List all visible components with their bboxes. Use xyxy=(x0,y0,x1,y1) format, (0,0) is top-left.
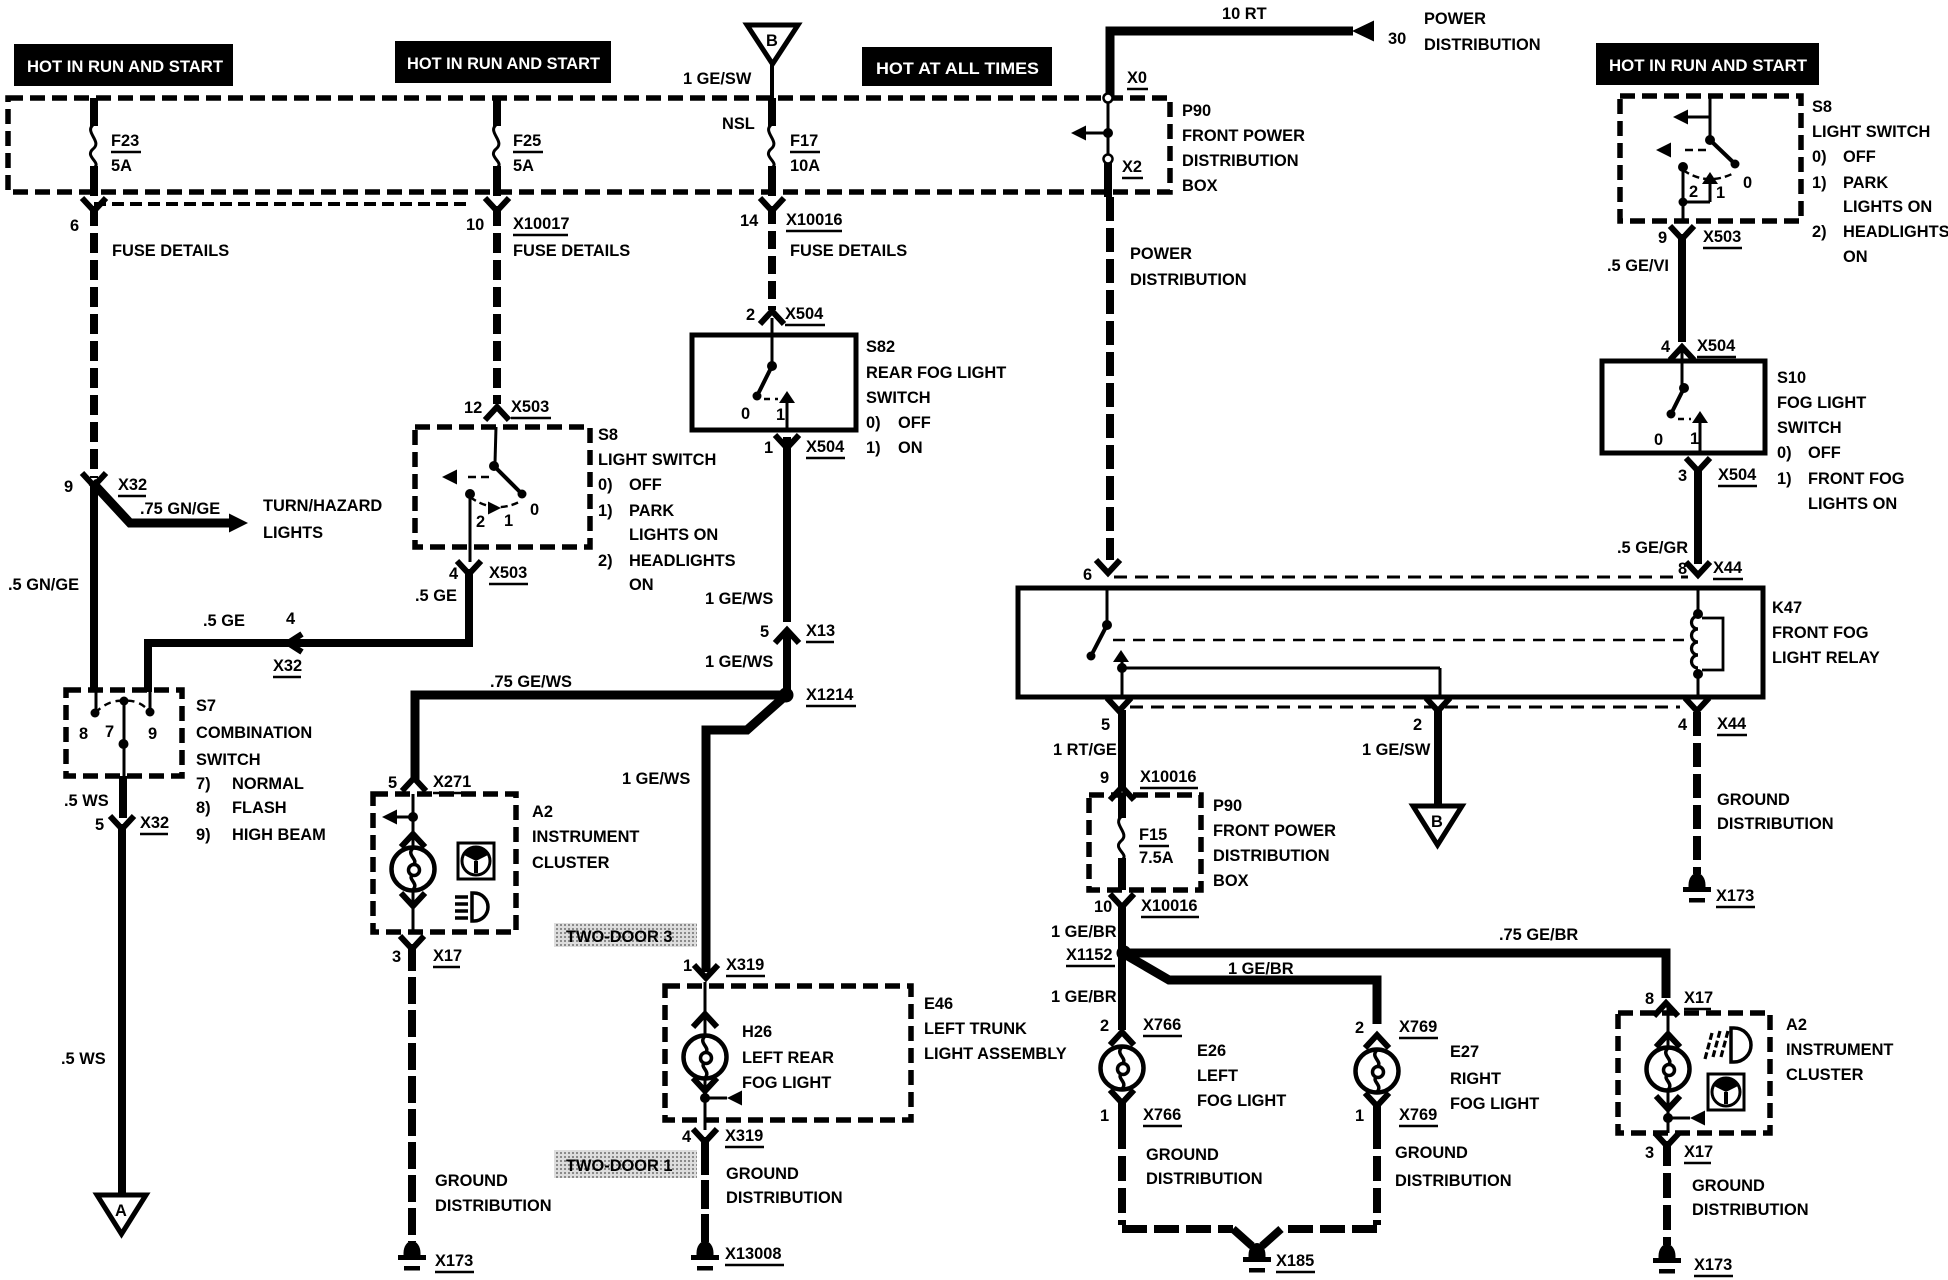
connector pin 4 X44 (K47 coil out) xyxy=(1678,698,1747,735)
svg-text:0): 0) xyxy=(1812,148,1827,166)
svg-text:X503: X503 xyxy=(489,564,527,582)
svg-text:X319: X319 xyxy=(725,1127,763,1145)
svg-text:X766: X766 xyxy=(1143,1106,1181,1124)
dashed control line to X44 (relay top) xyxy=(1114,576,1688,579)
svg-text:ON: ON xyxy=(898,439,923,457)
svg-text:LIGHTS: LIGHTS xyxy=(263,524,323,542)
svg-text:10: 10 xyxy=(1094,898,1112,916)
svg-text:5: 5 xyxy=(1101,716,1110,734)
wire 1 GE/WS to left rear fog light xyxy=(622,698,783,972)
label P90 FRONT POWER DISTRIBUTION BOX (lower) xyxy=(1213,797,1336,890)
svg-text:X504: X504 xyxy=(1718,466,1757,484)
connector pin 14 X10016 xyxy=(740,198,843,231)
svg-text:10A: 10A xyxy=(790,157,820,175)
svg-text:DISTRIBUTION: DISTRIBUTION xyxy=(1717,815,1834,833)
svg-text:0): 0) xyxy=(866,414,881,432)
svg-text:2): 2) xyxy=(598,552,613,570)
svg-text:7.5A: 7.5A xyxy=(1139,849,1174,867)
svg-text:1 GE/BR: 1 GE/BR xyxy=(1228,960,1294,978)
svg-text:E26: E26 xyxy=(1197,1042,1226,1060)
wire H26 to ground X13008 (dashed) xyxy=(701,1137,709,1242)
label GROUND DISTRIBUTION (far left) xyxy=(435,1172,552,1215)
svg-text:LEFT TRUNK: LEFT TRUNK xyxy=(924,1020,1027,1038)
connector pin 2 X504 xyxy=(746,305,825,325)
svg-text:7): 7) xyxy=(196,775,211,793)
svg-text:X32: X32 xyxy=(273,657,302,675)
svg-text:OFF: OFF xyxy=(898,414,931,432)
connector row dashed line below fuse box xyxy=(94,202,470,206)
svg-text:7: 7 xyxy=(105,723,114,741)
rear fog light switch S82 xyxy=(692,318,856,432)
svg-text:GROUND: GROUND xyxy=(726,1165,799,1183)
svg-text:1: 1 xyxy=(683,957,692,975)
connector B (top) xyxy=(747,25,798,99)
svg-text:9: 9 xyxy=(1100,769,1109,787)
svg-text:ON: ON xyxy=(629,576,654,594)
svg-text:LIGHT RELAY: LIGHT RELAY xyxy=(1772,649,1880,667)
svg-text:RIGHT: RIGHT xyxy=(1450,1070,1501,1088)
svg-text:3: 3 xyxy=(1678,467,1687,485)
label TWO-DOOR 1 (stippled) xyxy=(554,1150,697,1178)
header box HOT AT ALL TIMES xyxy=(862,47,1052,86)
svg-text:X10016: X10016 xyxy=(1140,768,1197,786)
svg-text:1 GE/BR: 1 GE/BR xyxy=(1051,988,1117,1006)
label S7 COMBINATION SWITCH xyxy=(196,697,326,844)
svg-text:1 RT/GE: 1 RT/GE xyxy=(1053,741,1117,759)
svg-text:5: 5 xyxy=(95,816,104,834)
steering wheel icon (right) xyxy=(1708,1074,1744,1110)
svg-text:FOG LIGHT: FOG LIGHT xyxy=(1777,394,1866,412)
svg-text:LEFT: LEFT xyxy=(1197,1067,1238,1085)
wire F17 to X504 (dashed) xyxy=(768,206,776,310)
headlight icon xyxy=(455,893,488,921)
svg-text:INSTRUMENT: INSTRUMENT xyxy=(1786,1041,1893,1059)
svg-text:HOT IN RUN AND START: HOT IN RUN AND START xyxy=(27,58,223,76)
svg-text:X0: X0 xyxy=(1127,69,1147,87)
svg-text:DISTRIBUTION: DISTRIBUTION xyxy=(1182,152,1299,170)
svg-text:FRONT FOG: FRONT FOG xyxy=(1808,470,1905,488)
wire E26 to ground X185 (dashed) xyxy=(1122,1124,1233,1229)
svg-text:HEADLIGHTS: HEADLIGHTS xyxy=(629,552,736,570)
connector pin 5 (K47) xyxy=(1101,698,1131,734)
svg-text:CLUSTER: CLUSTER xyxy=(1786,1066,1864,1084)
svg-text:4: 4 xyxy=(1661,338,1671,356)
svg-text:0): 0) xyxy=(598,476,613,494)
svg-text:X271: X271 xyxy=(433,773,471,791)
relay control dashed line (K47 internal) xyxy=(1113,639,1684,642)
indicator lamp (A2 left) xyxy=(392,848,435,933)
svg-text:SWITCH: SWITCH xyxy=(866,389,931,407)
svg-text:1: 1 xyxy=(1716,184,1725,202)
fuse F17 10A / NSL xyxy=(722,98,820,196)
svg-text:DISTRIBUTION: DISTRIBUTION xyxy=(1213,847,1330,865)
svg-text:X44: X44 xyxy=(1713,559,1743,577)
svg-text:6: 6 xyxy=(1083,566,1092,584)
wire .75 GE/BR to instrument cluster (right) xyxy=(1124,926,1666,998)
svg-text:6: 6 xyxy=(70,217,79,235)
svg-text:4: 4 xyxy=(449,565,459,583)
svg-text:X10017: X10017 xyxy=(513,215,570,233)
connector pin 2 X769 xyxy=(1355,1018,1438,1048)
svg-text:OFF: OFF xyxy=(1808,444,1841,462)
label S8 LIGHT SWITCH (right) xyxy=(1812,98,1948,266)
connector pin 8 X44 (relay coil in) xyxy=(1678,559,1743,579)
svg-text:HIGH BEAM: HIGH BEAM xyxy=(232,826,326,844)
svg-text:A: A xyxy=(115,1202,127,1220)
wire E27 to ground X185 (dashed) xyxy=(1281,1124,1377,1229)
wire F23 to X32 (dashed) xyxy=(90,206,98,478)
svg-text:FRONT POWER: FRONT POWER xyxy=(1213,822,1336,840)
svg-text:FUSE DETAILS: FUSE DETAILS xyxy=(513,242,630,260)
svg-text:X17: X17 xyxy=(433,947,462,965)
svg-text:DISTRIBUTION: DISTRIBUTION xyxy=(1146,1170,1263,1188)
steering wheel icon xyxy=(458,843,494,879)
svg-text:1 GE/SW: 1 GE/SW xyxy=(683,70,752,88)
svg-text:1 GE/WS: 1 GE/WS xyxy=(705,590,773,608)
wire F15 to X1152 (1 GE/BR) xyxy=(1051,904,1122,950)
svg-text:8: 8 xyxy=(1645,990,1654,1008)
svg-text:S8: S8 xyxy=(1812,98,1832,116)
svg-text:LIGHTS ON: LIGHTS ON xyxy=(629,526,718,544)
connector pin 3 X504 (S10 out) xyxy=(1678,458,1757,486)
svg-text:LIGHTS ON: LIGHTS ON xyxy=(1808,495,1897,513)
svg-text:X319: X319 xyxy=(726,956,764,974)
wire cluster right to ground X173 (dashed) xyxy=(1663,1141,1671,1245)
label GROUND DISTRIBUTION (E26) xyxy=(1146,1146,1263,1188)
left rear fog light H26 xyxy=(684,982,743,1130)
instrument cluster A2 (right) xyxy=(1618,1004,1770,1133)
connector pin 4 X319 (fog light output) xyxy=(682,1127,764,1147)
instrument cluster A2 (left) xyxy=(373,794,516,932)
svg-text:0: 0 xyxy=(1743,174,1752,192)
svg-text:X1152: X1152 xyxy=(1066,946,1113,964)
connector pin 6 (F23 output) xyxy=(70,198,106,235)
label A2 INSTRUMENT CLUSTER (left) xyxy=(532,803,639,872)
wire 10 RT battery feed xyxy=(1110,5,1406,98)
fuse F25 5A xyxy=(493,98,543,196)
connector pin 2 (K47) xyxy=(1413,698,1450,734)
svg-text:GROUND: GROUND xyxy=(1692,1177,1765,1195)
svg-text:2: 2 xyxy=(1100,1017,1109,1035)
svg-text:FLASH: FLASH xyxy=(232,799,287,817)
combination switch S7 xyxy=(66,690,182,776)
svg-text:2: 2 xyxy=(1413,716,1422,734)
svg-text:ON: ON xyxy=(1843,248,1868,266)
label TURN/HAZARD LIGHTS xyxy=(263,497,382,542)
svg-text:1 GE/BR: 1 GE/BR xyxy=(1051,923,1117,941)
svg-text:S8: S8 xyxy=(598,426,618,444)
svg-text:8: 8 xyxy=(79,725,88,743)
svg-text:SWITCH: SWITCH xyxy=(1777,419,1842,437)
svg-text:9: 9 xyxy=(64,478,73,496)
svg-text:1 GE/WS: 1 GE/WS xyxy=(705,653,773,671)
svg-text:POWER: POWER xyxy=(1424,10,1486,28)
connector pin 8 X17 (cluster right input) xyxy=(1645,989,1713,1016)
connector pin 4 X504 (S10 input) xyxy=(1661,337,1736,360)
connector B (middle) xyxy=(1413,806,1462,845)
svg-text:X32: X32 xyxy=(140,814,169,832)
svg-text:PARK: PARK xyxy=(629,502,674,520)
svg-text:DISTRIBUTION: DISTRIBUTION xyxy=(1130,271,1247,289)
connector pin 9 X10016 (F15 input) xyxy=(1100,768,1198,800)
svg-text:1: 1 xyxy=(1100,1107,1109,1125)
connector pin 1 X319 (fog light input) xyxy=(683,956,765,978)
svg-text:8: 8 xyxy=(1678,560,1687,578)
connector pin 12 X503 xyxy=(464,398,551,420)
svg-text:X185: X185 xyxy=(1276,1252,1314,1270)
header box HOT IN RUN AND START (right) xyxy=(1596,43,1819,85)
svg-text:LIGHTS ON: LIGHTS ON xyxy=(1843,198,1932,216)
svg-text:.75 GE/WS: .75 GE/WS xyxy=(490,673,572,691)
svg-text:P90: P90 xyxy=(1213,797,1242,815)
svg-text:BOX: BOX xyxy=(1182,177,1218,195)
svg-text:1): 1) xyxy=(598,502,613,520)
svg-text:X173: X173 xyxy=(1716,887,1754,905)
svg-text:X1214: X1214 xyxy=(806,686,854,704)
svg-text:PARK: PARK xyxy=(1843,174,1888,192)
connector pin 6 (relay feed) xyxy=(1083,560,1120,584)
svg-text:1 GE/WS: 1 GE/WS xyxy=(622,770,690,788)
svg-text:COMBINATION: COMBINATION xyxy=(196,724,312,742)
label E27 RIGHT FOG LIGHT xyxy=(1450,1043,1539,1113)
svg-text:X503: X503 xyxy=(511,398,549,416)
svg-text:INSTRUMENT: INSTRUMENT xyxy=(532,828,639,846)
connector pin 1 X504 (S82 output) xyxy=(764,435,845,458)
svg-text:FUSE DETAILS: FUSE DETAILS xyxy=(112,242,229,260)
svg-text:DISTRIBUTION: DISTRIBUTION xyxy=(1395,1172,1512,1190)
wire X44 to ground X173 (dashed) xyxy=(1693,712,1701,874)
node X1152 xyxy=(1066,946,1132,967)
svg-text:E27: E27 xyxy=(1450,1043,1479,1061)
fuse F15 7.5A xyxy=(1118,795,1173,890)
svg-text:.5 GE/VI: .5 GE/VI xyxy=(1607,257,1669,275)
label A2 INSTRUMENT CLUSTER (right) xyxy=(1786,1016,1893,1084)
connector pin 3 X17 (cluster right out) xyxy=(1645,1133,1713,1163)
connector pin 9 X503 (S8 right out) xyxy=(1658,226,1742,248)
connector pin 1 X769 xyxy=(1355,1093,1438,1126)
svg-text:E46: E46 xyxy=(924,995,953,1013)
svg-text:X503: X503 xyxy=(1703,228,1741,246)
svg-text:.5 GN/GE: .5 GN/GE xyxy=(8,576,79,594)
svg-text:0): 0) xyxy=(1777,444,1792,462)
svg-text:1): 1) xyxy=(1777,470,1792,488)
connector pin 10 X10017 xyxy=(466,198,570,235)
svg-text:10: 10 xyxy=(466,216,484,234)
svg-text:DISTRIBUTION: DISTRIBUTION xyxy=(1424,36,1541,54)
label S8 LIGHT SWITCH (middle) xyxy=(598,426,736,594)
svg-text:1: 1 xyxy=(1690,430,1699,448)
svg-text:A2: A2 xyxy=(1786,1016,1807,1034)
left trunk light assembly E46 xyxy=(665,986,911,1120)
svg-text:2: 2 xyxy=(746,306,755,324)
label GROUND DISTRIBUTION (A2 right) xyxy=(1692,1177,1809,1219)
svg-text:5: 5 xyxy=(388,774,397,792)
svg-text:CLUSTER: CLUSTER xyxy=(532,854,610,872)
wire to turn/hazard lights xyxy=(92,482,248,533)
svg-text:2: 2 xyxy=(1355,1019,1364,1037)
svg-text:1: 1 xyxy=(1355,1107,1364,1125)
light switch S8 (middle) xyxy=(415,427,590,547)
svg-text:2): 2) xyxy=(1812,223,1827,241)
ground X13008 xyxy=(691,1241,784,1271)
svg-text:H26: H26 xyxy=(742,1023,772,1041)
svg-text:4: 4 xyxy=(1678,716,1688,734)
left fog light E26 xyxy=(1101,1047,1144,1127)
wire F25 to X503 (dashed) xyxy=(493,206,501,404)
svg-text:.5 GE/GR: .5 GE/GR xyxy=(1617,539,1688,557)
connector pin 5 X13 xyxy=(760,622,835,643)
light switch S8 (right) xyxy=(1620,96,1801,221)
wire S8 mid to S7 pin 9 (.5 GE) xyxy=(148,569,469,692)
svg-text:LIGHT SWITCH: LIGHT SWITCH xyxy=(598,451,716,469)
svg-text:F15: F15 xyxy=(1139,826,1167,844)
svg-text:NSL: NSL xyxy=(722,115,755,133)
svg-text:HOT AT ALL TIMES: HOT AT ALL TIMES xyxy=(876,60,1039,78)
svg-text:9: 9 xyxy=(148,725,157,743)
svg-text:30: 30 xyxy=(1388,30,1406,48)
svg-text:X173: X173 xyxy=(1694,1256,1732,1274)
ground X173 (left) xyxy=(398,1241,474,1272)
svg-text:X504: X504 xyxy=(1697,337,1736,355)
svg-text:GROUND: GROUND xyxy=(1717,791,1790,809)
front fog indicator icon xyxy=(1705,1028,1751,1062)
node X1214 xyxy=(779,686,857,706)
node X2 on fuse box xyxy=(1104,155,1144,198)
wire .5 GE/VI to S10 xyxy=(1607,234,1682,342)
svg-text:X10016: X10016 xyxy=(1141,897,1198,915)
wire .75 GE/WS to instrument cluster xyxy=(415,673,786,780)
svg-text:5A: 5A xyxy=(513,157,534,175)
svg-text:9: 9 xyxy=(1658,229,1667,247)
svg-text:X504: X504 xyxy=(785,305,824,323)
svg-text:FOG LIGHT: FOG LIGHT xyxy=(1197,1092,1286,1110)
label GROUND DISTRIBUTION (E27) xyxy=(1395,1144,1512,1190)
relay coil (K47) xyxy=(1692,588,1724,697)
svg-text:FUSE DETAILS: FUSE DETAILS xyxy=(790,242,907,260)
svg-text:SWITCH: SWITCH xyxy=(196,751,261,769)
svg-text:TWO-DOOR 1: TWO-DOOR 1 xyxy=(566,1157,673,1175)
svg-text:.75 GE/BR: .75 GE/BR xyxy=(1499,926,1578,944)
fog light switch S10 xyxy=(1602,348,1765,453)
svg-text:BOX: BOX xyxy=(1213,872,1249,890)
svg-text:X504: X504 xyxy=(806,438,845,456)
label S82 REAR FOG LIGHT SWITCH xyxy=(866,338,1006,457)
connector pin 5 X32 (S7 output) xyxy=(95,776,169,834)
wire cluster to ground X173 (left, dashed) xyxy=(408,944,416,1242)
svg-text:B: B xyxy=(1431,813,1443,831)
svg-text:X17: X17 xyxy=(1684,989,1713,1007)
svg-text:HOT IN RUN AND START: HOT IN RUN AND START xyxy=(1609,57,1807,75)
wire 1 GE/BR down to left fog light xyxy=(1051,956,1122,1030)
svg-text:P90: P90 xyxy=(1182,102,1211,120)
fuse box P90 (lower, dashed) xyxy=(1089,795,1201,890)
label GROUND DISTRIBUTION (H26) xyxy=(726,1165,843,1207)
svg-text:HOT IN RUN AND START: HOT IN RUN AND START xyxy=(407,55,600,73)
svg-text:.75 GN/GE: .75 GN/GE xyxy=(140,500,220,518)
header box HOT IN RUN AND START (mid-left) xyxy=(395,41,611,83)
svg-text:F17: F17 xyxy=(790,132,818,150)
front fog light relay K47 xyxy=(1018,588,1763,697)
svg-text:0: 0 xyxy=(1654,431,1663,449)
svg-text:.5 WS: .5 WS xyxy=(61,1050,106,1068)
svg-text:1): 1) xyxy=(1812,174,1827,192)
wire .5 GE/GR to relay xyxy=(1617,468,1698,564)
dashed connector-row line below K47 xyxy=(1130,706,1680,709)
svg-text:4: 4 xyxy=(682,1128,692,1146)
svg-text:B: B xyxy=(766,32,778,50)
right fog light E27 xyxy=(1356,1050,1399,1127)
svg-text:5: 5 xyxy=(760,623,769,641)
svg-text:14: 14 xyxy=(740,212,759,230)
svg-text:FOG LIGHT: FOG LIGHT xyxy=(1450,1095,1539,1113)
svg-text:X44: X44 xyxy=(1717,715,1747,733)
label GROUND DISTRIBUTION (K47) xyxy=(1717,791,1834,833)
svg-text:OFF: OFF xyxy=(1843,148,1876,166)
svg-text:8): 8) xyxy=(196,799,211,817)
wire 1 GE/SW to connector B xyxy=(1362,710,1438,808)
header box HOT IN RUN AND START (left) xyxy=(14,44,233,86)
svg-text:.5 GE: .5 GE xyxy=(415,587,457,605)
svg-text:S82: S82 xyxy=(866,338,895,356)
label K47 FRONT FOG LIGHT RELAY xyxy=(1772,599,1880,667)
label E26 LEFT FOG LIGHT xyxy=(1197,1042,1286,1110)
svg-text:1: 1 xyxy=(504,512,513,530)
label H26 LEFT REAR FOG LIGHT xyxy=(742,1023,834,1092)
svg-text:TURN/HAZARD: TURN/HAZARD xyxy=(263,497,382,515)
connector pin 2 X766 xyxy=(1100,1016,1182,1045)
svg-text:NORMAL: NORMAL xyxy=(232,775,304,793)
svg-text:X13008: X13008 xyxy=(725,1245,782,1263)
svg-text:GROUND: GROUND xyxy=(1146,1146,1219,1164)
svg-text:GROUND: GROUND xyxy=(1395,1144,1468,1162)
wire power distribution (dashed, X2 down) xyxy=(1106,197,1114,560)
svg-text:X2: X2 xyxy=(1122,158,1142,176)
label S10 FOG LIGHT SWITCH xyxy=(1777,369,1905,513)
connector pin 10 X10016 (F15 output) xyxy=(1094,894,1199,917)
ground junction V to X185 xyxy=(1233,1229,1315,1273)
wire X32 to S7 pin 8 xyxy=(90,482,98,692)
svg-text:1): 1) xyxy=(866,439,881,457)
fuse F23 5A xyxy=(90,98,141,196)
svg-text:X173: X173 xyxy=(435,1252,473,1270)
label P90 FRONT POWER DISTRIBUTION BOX (top) xyxy=(1182,102,1305,195)
svg-text:12: 12 xyxy=(464,399,482,417)
ground X173 (under K47) xyxy=(1683,873,1755,907)
svg-text:LIGHT SWITCH: LIGHT SWITCH xyxy=(1812,123,1930,141)
wire S7 to connector A xyxy=(118,824,126,1196)
svg-text:X32: X32 xyxy=(118,476,147,494)
svg-text:FOG LIGHT: FOG LIGHT xyxy=(742,1074,831,1092)
label E46 LEFT TRUNK LIGHT ASSEMBLY xyxy=(924,995,1067,1063)
svg-text:X766: X766 xyxy=(1143,1016,1181,1034)
connector A (bottom left) xyxy=(97,1195,146,1234)
svg-text:POWER: POWER xyxy=(1130,245,1192,263)
svg-text:FRONT POWER: FRONT POWER xyxy=(1182,127,1305,145)
svg-text:.5 GE: .5 GE xyxy=(203,612,245,630)
connector pin 5 X271 (cluster input) xyxy=(388,773,472,793)
svg-text:2: 2 xyxy=(1689,183,1698,201)
label POWER DISTRIBUTION (mid) xyxy=(1130,245,1247,289)
connector pin 4 X503 (S8 mid output) xyxy=(415,547,528,605)
svg-text:2: 2 xyxy=(476,513,485,531)
wire 1 GE/BR to right fog light xyxy=(1126,955,1377,1024)
svg-text:0: 0 xyxy=(741,405,750,423)
svg-text:1: 1 xyxy=(764,439,773,457)
node X0 on fuse box xyxy=(1104,69,1149,103)
label POWER DISTRIBUTION (top right) xyxy=(1424,10,1541,54)
svg-text:FRONT FOG: FRONT FOG xyxy=(1772,624,1869,642)
wire X13 to X1214 xyxy=(783,634,791,695)
